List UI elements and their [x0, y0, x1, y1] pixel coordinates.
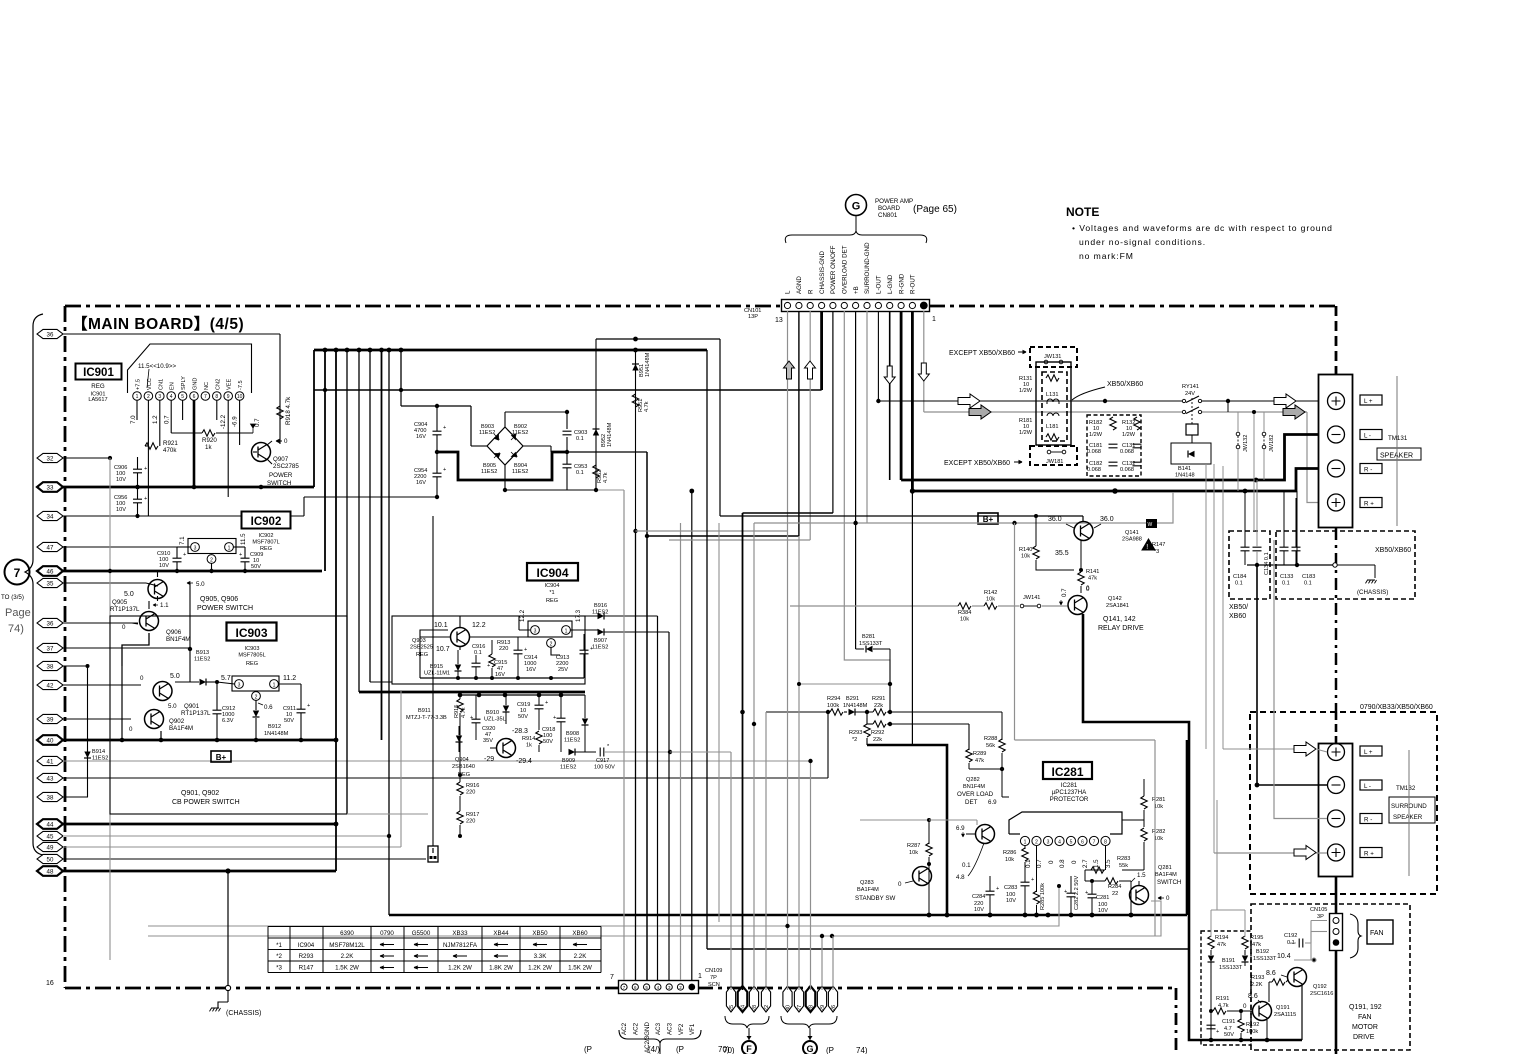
svg-text:C917: C917: [596, 758, 609, 764]
svg-text:TM131: TM131: [1388, 435, 1408, 442]
svg-text:BA1F4M: BA1F4M: [169, 725, 193, 732]
svg-text:47k: 47k: [1217, 942, 1226, 948]
R285 100k rotated: [1033, 846, 1046, 915]
L131 dashed inner box: [1042, 372, 1067, 441]
verticals from JW/relay to caps: [1206, 401, 1256, 853]
C282 2.2 50V rotated: [1064, 876, 1080, 915]
svg-text:+: +: [443, 467, 446, 473]
Q904 transistor: [490, 739, 516, 758]
svg-text:IC902: IC902: [259, 533, 274, 539]
svg-text:220: 220: [499, 646, 508, 652]
C912 1000 6.3V: [213, 680, 236, 740]
B952 1N4148M vertical diode: [593, 339, 614, 490]
XB50/XB60 text top right: [1375, 547, 1411, 554]
svg-text:100 50V: 100 50V: [594, 765, 615, 771]
svg-text:R282: R282: [1152, 829, 1165, 835]
Q903 transistor: [434, 622, 486, 653]
OVER LOAD DET label: [957, 791, 997, 806]
C283 100 10V: [1004, 872, 1034, 915]
svg-text:FAN: FAN: [1370, 930, 1384, 937]
C131 0.068: [1120, 443, 1142, 455]
svg-text:5: 5: [181, 394, 184, 400]
TM132 center thick feed from border: [1335, 712, 1338, 743]
svg-text:REG: REG: [91, 383, 105, 390]
Q142 transistor: [1068, 585, 1090, 615]
brace over CN801: [785, 231, 927, 243]
Q906 transistor: [122, 612, 159, 632]
CB power switch block outline: [110, 616, 347, 814]
vertical x727: [719, 339, 721, 516]
Q192 emitter down: [1301, 985, 1303, 1040]
IC903 regulator symbol: [232, 676, 279, 701]
svg-text:+: +: [470, 715, 473, 721]
IC902 pin2 down wire: [211, 564, 213, 572]
svg-text:7.0: 7.0: [130, 415, 137, 424]
svg-text:REG: REG: [546, 598, 558, 604]
svg-text:+: +: [144, 496, 147, 502]
svg-text:【MAIN BOARD】(4/5): 【MAIN BOARD】(4/5): [72, 315, 244, 333]
svg-text:28: 28: [809, 1005, 815, 1011]
svg-text:6: 6: [1081, 840, 1084, 846]
svg-text:22: 22: [764, 1005, 770, 1011]
svg-text:50V: 50V: [1224, 1032, 1234, 1038]
svg-text:24V: 24V: [1185, 391, 1195, 397]
IC901 pin name labels: [136, 376, 245, 390]
R294 100k label: [827, 696, 840, 709]
svg-text:*1: *1: [276, 942, 282, 949]
svg-text:Q903: Q903: [412, 638, 426, 644]
R292 row y724: [867, 712, 969, 750]
svg-text:11ES2: 11ES2: [92, 756, 108, 762]
input arrow node 50: [37, 854, 426, 863]
C915 47 16V: [487, 660, 507, 678]
TM132 L+ feed arrow: [1223, 742, 1327, 756]
wire y490: [505, 489, 624, 491]
svg-text:B141: B141: [1178, 466, 1191, 472]
svg-text:REG: REG: [416, 652, 428, 658]
JW132 jumper vertical: [1236, 412, 1249, 491]
TM132 dashed box: [1250, 712, 1437, 894]
C954 capacitor: [414, 452, 446, 497]
SWITCH label: [1157, 879, 1181, 886]
CN101 pin labels rotated: [785, 242, 917, 294]
svg-text:C283: C283: [1004, 885, 1017, 891]
TM131 speaker terminal box: [1319, 375, 1353, 528]
svg-text:JW182: JW182: [1269, 435, 1275, 452]
JW181 dashed box: [1030, 446, 1077, 465]
R141 47k: [1078, 541, 1100, 594]
svg-text:Q141, 142: Q141, 142: [1103, 616, 1136, 623]
svg-text:B907: B907: [594, 638, 607, 644]
svg-text:BN1F4M: BN1F4M: [963, 784, 985, 790]
svg-text:5: 5: [1070, 840, 1073, 846]
svg-text:Q142: Q142: [1108, 596, 1122, 602]
svg-text:1/2W: 1/2W: [1122, 432, 1136, 438]
Q142 collector thick path: [1083, 614, 1302, 1040]
svg-text:XB50: XB50: [532, 930, 548, 937]
svg-text:-28.3: -28.3: [512, 728, 528, 735]
svg-text:1: 1: [1024, 840, 1027, 846]
gray vertical to node49: [400, 690, 402, 847]
svg-text:µPC1237HA: µPC1237HA: [1052, 789, 1087, 796]
svg-text:CN801: CN801: [878, 212, 898, 219]
chassis net 16 label: [46, 980, 54, 987]
svg-text:B+: B+: [216, 753, 227, 762]
svg-text:1.8K 2W: 1.8K 2W: [489, 965, 513, 972]
svg-text:5.0: 5.0: [196, 581, 205, 588]
Q901 Q902 CB POWER SWITCH label: [172, 790, 240, 806]
svg-text:1N4148: 1N4148: [1175, 473, 1195, 479]
svg-text:IC903: IC903: [235, 626, 267, 640]
svg-text:B913: B913: [196, 650, 209, 656]
svg-text:RT1P137L: RT1P137L: [110, 606, 140, 613]
svg-text:3.5: 3.5: [1105, 859, 1112, 868]
svg-text:1.2: 1.2: [152, 415, 159, 424]
CN105 thick feed below: [1335, 951, 1338, 1054]
Q903 label: [410, 638, 433, 658]
CN109 pin numbers: [610, 973, 702, 981]
svg-text:16V: 16V: [416, 480, 426, 486]
svg-text:R147: R147: [299, 965, 314, 972]
svg-text:C184: C184: [1233, 574, 1246, 580]
svg-text:0: 0: [284, 438, 288, 445]
R195 47k: [1242, 910, 1264, 955]
R916 220: [457, 752, 480, 811]
Q192 label: [1310, 984, 1333, 997]
vertical from node 34 corner: [304, 497, 437, 516]
L+ arrow near TM131: [1274, 394, 1296, 408]
svg-text:16V: 16V: [526, 667, 536, 673]
svg-text:12.2: 12.2: [472, 622, 486, 629]
input arrow node 40: [37, 735, 336, 745]
svg-text:R -: R -: [1364, 817, 1372, 824]
svg-text:0.7: 0.7: [1061, 588, 1068, 597]
L181 coil: [1046, 413, 1059, 430]
svg-text:Q905, Q906: Q905, Q906: [200, 596, 238, 603]
svg-text:R193: R193: [1251, 975, 1264, 981]
svg-text:R283: R283: [1117, 856, 1130, 862]
svg-text:5.7: 5.7: [221, 675, 231, 682]
svg-text:BA1F4M: BA1F4M: [857, 887, 879, 893]
C906 capacitor: [114, 457, 147, 487]
svg-text:11ES2: 11ES2: [481, 469, 497, 475]
svg-text:2: 2: [550, 642, 553, 648]
svg-text:IC904: IC904: [536, 566, 568, 580]
XB50/XB60 label below: [1229, 604, 1248, 620]
svg-text:CN2: CN2: [215, 379, 221, 390]
svg-text:XB60: XB60: [572, 930, 588, 937]
svg-text:L +: L +: [1364, 749, 1373, 756]
long vertical to TM131 from relay area: [1257, 491, 1297, 785]
svg-text:2SC1616: 2SC1616: [1310, 991, 1333, 997]
Q905 Q906 POWER SWITCH label: [197, 596, 253, 612]
svg-text:L +: L +: [1364, 398, 1373, 405]
NOTE heading: [1066, 205, 1099, 219]
title MAIN BOARD 4/5: [72, 315, 244, 333]
Q905 label: [110, 599, 140, 613]
border dash-dot from TM131 to TM132: [1335, 528, 1338, 712]
svg-text:B908: B908: [566, 731, 579, 737]
svg-text:11.5: 11.5: [240, 533, 247, 545]
svg-text:0: 0: [1243, 1003, 1247, 1010]
svg-text:0.7: 0.7: [164, 415, 171, 424]
bundle vertical x314: [313, 350, 315, 487]
link y536: [647, 535, 799, 537]
svg-text:JW131: JW131: [1044, 354, 1061, 360]
junction dots left column: [108, 456, 263, 518]
input arrow node 34: [37, 511, 304, 520]
Q192 transistor: [1266, 968, 1307, 987]
B914 11ES2 diode: [84, 664, 91, 797]
svg-text:R +: R +: [1364, 851, 1374, 858]
-28.3 value: [512, 728, 528, 735]
svg-text:0.068: 0.068: [1087, 449, 1101, 455]
XB50/XB60 cap dashed box left: [1229, 480, 1270, 599]
brace group1: [725, 1016, 769, 1040]
R281 10k vertical right: [1141, 779, 1166, 827]
svg-text:XB60: XB60: [1229, 613, 1246, 620]
output arrow node 25: [726, 986, 735, 1012]
svg-text:L -: L -: [1364, 433, 1371, 440]
B914 label: [92, 749, 108, 762]
B+ label box: [211, 751, 231, 762]
svg-text:AC3: AC3: [655, 1022, 662, 1035]
svg-text:47k: 47k: [1088, 576, 1097, 582]
svg-text:10V: 10V: [159, 563, 169, 569]
input arrow node 38: [37, 792, 88, 801]
C281 100 10V: [1085, 881, 1109, 915]
svg-text:3.3K: 3.3K: [534, 953, 548, 960]
up arrow R signal: [805, 361, 816, 379]
C910 100 10V: [157, 547, 190, 571]
svg-text:1N4148M: 1N4148M: [264, 731, 289, 737]
bridge left wire: [471, 445, 487, 447]
svg-text:+: +: [487, 663, 490, 669]
IC901 pins 1-10: [133, 392, 244, 401]
B+ label box right: [978, 513, 998, 524]
svg-text:+: +: [545, 700, 548, 706]
bridge bottom wire: [504, 465, 506, 490]
up arrow L signal: [784, 361, 795, 379]
svg-text:B291: B291: [846, 696, 859, 702]
svg-text:POWER AMP: POWER AMP: [875, 198, 913, 205]
C911 10 50V: [279, 684, 311, 740]
svg-text:39: 39: [47, 716, 54, 723]
svg-text:2SB2525: 2SB2525: [410, 645, 433, 651]
svg-text:220: 220: [466, 790, 475, 796]
svg-text:6.9: 6.9: [956, 825, 965, 832]
left brace to page 7: [25, 314, 43, 855]
svg-text:2.2K: 2.2K: [1251, 982, 1263, 988]
svg-text:RT1P137L: RT1P137L: [181, 710, 211, 717]
B902 11ES2 label: [512, 424, 528, 436]
svg-text:under no-signal conditions.: under no-signal conditions.: [1079, 237, 1206, 247]
VF1 vertical x691: [689, 489, 694, 980]
svg-text:7: 7: [204, 394, 207, 400]
B281 1SS133T: [856, 634, 890, 712]
svg-text:1N4148M: 1N4148M: [843, 703, 868, 709]
B904 11ES2 label: [512, 463, 528, 475]
svg-text:*3: *3: [1154, 549, 1159, 555]
bottom page ref texts: [584, 1045, 730, 1054]
svg-text:Q905: Q905: [112, 599, 128, 606]
C181 0.068: [1087, 443, 1118, 455]
Q901 transistor: [140, 673, 180, 701]
output arrow node 29: [817, 986, 826, 1012]
svg-text:UZL-11M1: UZL-11M1: [424, 671, 450, 677]
B908 11ES2: [564, 695, 589, 752]
IC901 value 11.5<<10.9>>: [138, 363, 176, 388]
STANDBY SW label: [855, 895, 895, 902]
svg-text:L-OUT: L-OUT: [876, 275, 883, 294]
svg-text:B909: B909: [562, 758, 575, 764]
svg-text:GND: GND: [193, 378, 199, 390]
svg-text:+7.5: +7.5: [136, 379, 142, 390]
svg-text:38: 38: [47, 794, 54, 801]
node30 vertical x787: [785, 531, 789, 990]
svg-text:Q191: Q191: [1276, 1005, 1290, 1011]
svg-text:0.1: 0.1: [1304, 581, 1312, 587]
C903 0.1: [563, 430, 588, 452]
svg-text:11ES2: 11ES2: [479, 430, 495, 436]
svg-text:CB POWER SWITCH: CB POWER SWITCH: [172, 799, 240, 806]
XB50/XB60 pointer label: [1072, 381, 1143, 400]
svg-text:(P: (P: [826, 1046, 834, 1054]
R384 10k: [958, 603, 971, 623]
svg-text:0.1: 0.1: [576, 470, 584, 476]
svg-text:NJM7812FA: NJM7812FA: [443, 942, 478, 949]
+B gray rail y523: [754, 521, 1146, 525]
R291 22k label: [872, 696, 885, 709]
L-OUT line y401: [878, 399, 1327, 403]
svg-text:0.6: 0.6: [264, 704, 273, 711]
svg-text:2: 2: [210, 558, 213, 564]
svg-text:(P: (P: [584, 1045, 592, 1054]
svg-text:B914: B914: [92, 749, 105, 755]
IC904 regulator symbol: [528, 621, 572, 648]
L-OUT open arrow: [958, 394, 980, 408]
svg-text:C192: C192: [1284, 933, 1297, 939]
svg-text:+: +: [524, 647, 527, 653]
svg-text:L-GND: L-GND: [887, 274, 894, 294]
svg-text:1.1: 1.1: [160, 602, 169, 609]
svg-text:10k: 10k: [1005, 857, 1014, 863]
svg-text:17.3: 17.3: [575, 609, 582, 622]
svg-text:XB50/XB60: XB50/XB60: [1375, 547, 1411, 554]
B291 1N4148M label: [843, 696, 868, 709]
bridge rectifier diamond B902-B905: [487, 427, 523, 465]
svg-text:1.2K 2W: 1.2K 2W: [448, 965, 472, 972]
svg-text:56k: 56k: [986, 743, 995, 749]
svg-text:1: 1: [273, 683, 276, 689]
input arrow node 49: [37, 842, 401, 851]
Q282 transistor: [966, 825, 995, 844]
svg-text:R-OUT: R-OUT: [910, 274, 917, 294]
Q901 label: [168, 703, 211, 717]
svg-text:+: +: [1031, 877, 1034, 883]
thick rail under IC904: [359, 691, 585, 694]
input arrow node 48: [37, 866, 336, 876]
CN105 brace: [1350, 914, 1361, 958]
Q141 label: [1122, 530, 1142, 543]
svg-text:0.7: 0.7: [1036, 859, 1043, 868]
node28b vertical x811: [808, 759, 812, 990]
svg-text:IC281: IC281: [1051, 765, 1083, 779]
svg-text:XB44: XB44: [493, 930, 509, 937]
svg-text:VF2: VF2: [678, 1023, 685, 1035]
0.7 rotated value: [1060, 588, 1069, 605]
svg-text:0: 0: [122, 624, 126, 631]
svg-text:8: 8: [1104, 840, 1107, 846]
svg-text:L: L: [785, 290, 792, 294]
svg-text:IC281: IC281: [1061, 782, 1078, 789]
svg-text:0: 0: [1166, 895, 1170, 902]
R915 4.7k vertical: [454, 695, 467, 752]
IC281 right thick vertical: [1186, 740, 1189, 915]
svg-text:RY141: RY141: [1182, 384, 1199, 390]
IC904 label box: [527, 563, 578, 581]
svg-text:9: 9: [227, 394, 230, 400]
svg-text:4.7k: 4.7k: [603, 472, 609, 483]
down arrow R-OUT: [918, 363, 929, 381]
svg-text:10.1: 10.1: [434, 622, 448, 629]
svg-text:6: 6: [193, 394, 196, 400]
TM132 R- feed: [1274, 540, 1327, 819]
svg-text:LA5617: LA5617: [88, 397, 107, 403]
svg-text:R286: R286: [1003, 850, 1016, 856]
svg-text:Q141: Q141: [1125, 530, 1139, 536]
R289 47k: [966, 749, 1002, 769]
svg-text:7: 7: [610, 974, 614, 981]
svg-text:100k: 100k: [1246, 1029, 1258, 1035]
svg-text:11ES2: 11ES2: [512, 430, 528, 436]
gray vertical from node 32: [109, 458, 111, 960]
svg-text:AGND: AGND: [796, 276, 803, 294]
B192 1SS133T diode: [1242, 949, 1291, 966]
wire x912 down to IC281 area: [911, 491, 913, 745]
svg-text:SWITCH: SWITCH: [1157, 879, 1181, 886]
AC2 gray vertical x624: [623, 490, 625, 980]
svg-text:R294: R294: [827, 696, 840, 702]
output arrow node 30: [783, 986, 792, 1012]
svg-text:5.0: 5.0: [170, 673, 180, 680]
svg-text:0: 0: [898, 881, 902, 888]
CN109 connector: [619, 981, 699, 994]
TM132 label: [1396, 785, 1416, 792]
wire x190 from 5.0 down to IC903: [188, 583, 192, 682]
CN109 pin labels rotated: [621, 1022, 696, 1053]
Q902 label: [169, 718, 193, 732]
svg-text:B281: B281: [862, 634, 875, 640]
svg-text:(CHASSIS): (CHASSIS): [226, 1010, 261, 1017]
svg-text:48: 48: [47, 868, 54, 875]
svg-text:13P: 13P: [748, 314, 758, 320]
CN101 pin7 +B wire: [853, 311, 857, 649]
R952 4.7k: [593, 465, 609, 483]
svg-text:-6.9: -6.9: [232, 416, 239, 427]
svg-text:0: 0: [1048, 860, 1055, 864]
lower rail y695: [460, 694, 585, 696]
gray line dots: [830, 884, 1061, 938]
svg-text:MSF7807L: MSF7807L: [252, 540, 279, 546]
svg-text:2: 2: [255, 695, 258, 701]
svg-text:IC901: IC901: [83, 367, 114, 379]
Q282 label: [963, 777, 985, 790]
svg-text:2.2K: 2.2K: [574, 953, 588, 960]
input arrow node 33: [37, 482, 314, 492]
svg-text:4.7k: 4.7k: [461, 707, 467, 718]
svg-text:(CHASSIS): (CHASSIS): [1357, 589, 1388, 596]
